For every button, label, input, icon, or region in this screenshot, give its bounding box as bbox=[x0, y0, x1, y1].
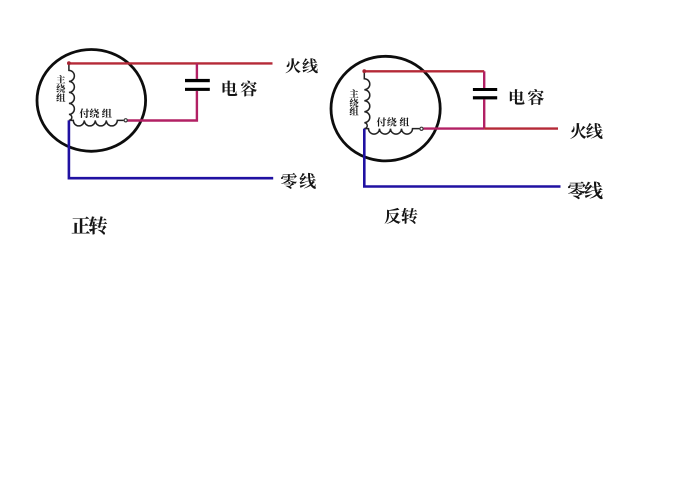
node: L1 top terminal (red dot) bbox=[67, 61, 71, 65]
capacitor C1 (电容) plates bbox=[185, 79, 210, 91]
main winding L1 (主绕组) vertical coil bbox=[69, 63, 75, 120]
label 零线 (neutral wire, left) bbox=[281, 173, 316, 189]
node: L2 right terminal (open dot) bbox=[124, 119, 127, 122]
label 电容 (capacitor C1) bbox=[223, 81, 257, 97]
wire: magenta from L4 terminal to C2 junction bbox=[423, 127, 484, 129]
label 火线 (live wire, left) bbox=[286, 58, 318, 73]
capacitor C2 (电容) plates bbox=[473, 88, 497, 99]
label 反转 (reverse rotation) bbox=[385, 208, 418, 224]
node: L3 top terminal (red dot) bbox=[362, 69, 366, 73]
label 主绕组 (main winding, vertical text) bbox=[56, 75, 65, 102]
wire: live line (red) from junction right to 火线 bbox=[484, 127, 558, 129]
wire: C1 top lead (magenta) from live line down to capacitor bbox=[196, 63, 198, 79]
wire: C2 top lead (magenta) bbox=[483, 71, 485, 88]
auxiliary winding L2 (付绕组) horizontal coil bbox=[69, 120, 124, 126]
label 付绕组 (aux winding, right) bbox=[377, 117, 410, 126]
wire: red from L3 top terminal right to capacitor drop bbox=[364, 70, 484, 72]
wire: C1 bottom lead (magenta) down and left to L2 terminal bbox=[127, 91, 197, 121]
wire: neutral line (blue) from L1/L2 junction to 零线 bbox=[69, 120, 273, 178]
label 电容 (capacitor C2) bbox=[510, 89, 544, 105]
wire: live line (red) from L1 top terminal to 火线 bbox=[69, 62, 273, 64]
main winding L3 (主绕组) vertical coil bbox=[364, 71, 370, 128]
label 付绕组 (aux winding) bbox=[80, 108, 112, 118]
motor M2 (reverse circuit) stator circle bbox=[331, 56, 440, 161]
auxiliary winding L4 (付绕组) horizontal coil bbox=[364, 129, 419, 135]
label 火线 (live wire, right) bbox=[570, 123, 602, 139]
wire: neutral line (blue) from L3/L4 junction to 零线 bbox=[364, 129, 560, 187]
motor M1 (forward circuit) stator circle bbox=[37, 50, 146, 152]
wire: C2 bottom lead (magenta) down to live junction bbox=[483, 99, 485, 128]
label 零线 (neutral wire, right) bbox=[568, 181, 603, 199]
node: L4 right terminal (open dot) bbox=[420, 127, 423, 130]
label 正转 (forward rotation) bbox=[72, 216, 108, 234]
label 主绕组 (main winding, right, vertical text) bbox=[350, 89, 359, 115]
